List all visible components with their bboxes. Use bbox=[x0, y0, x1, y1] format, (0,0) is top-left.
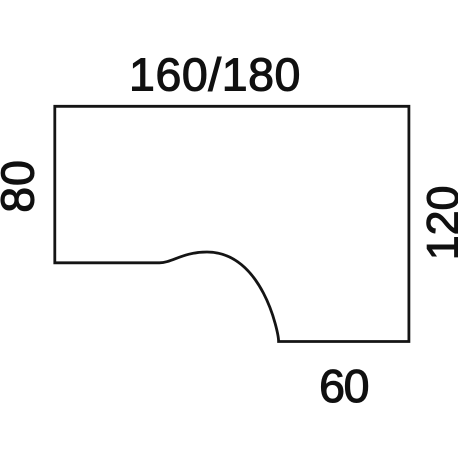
svg-text:80: 80 bbox=[0, 159, 43, 213]
svg-text:120: 120 bbox=[418, 186, 458, 261]
svg-text:60: 60 bbox=[319, 360, 368, 412]
svg-text:160/180: 160/180 bbox=[129, 49, 301, 101]
desk outline bbox=[55, 106, 409, 341]
